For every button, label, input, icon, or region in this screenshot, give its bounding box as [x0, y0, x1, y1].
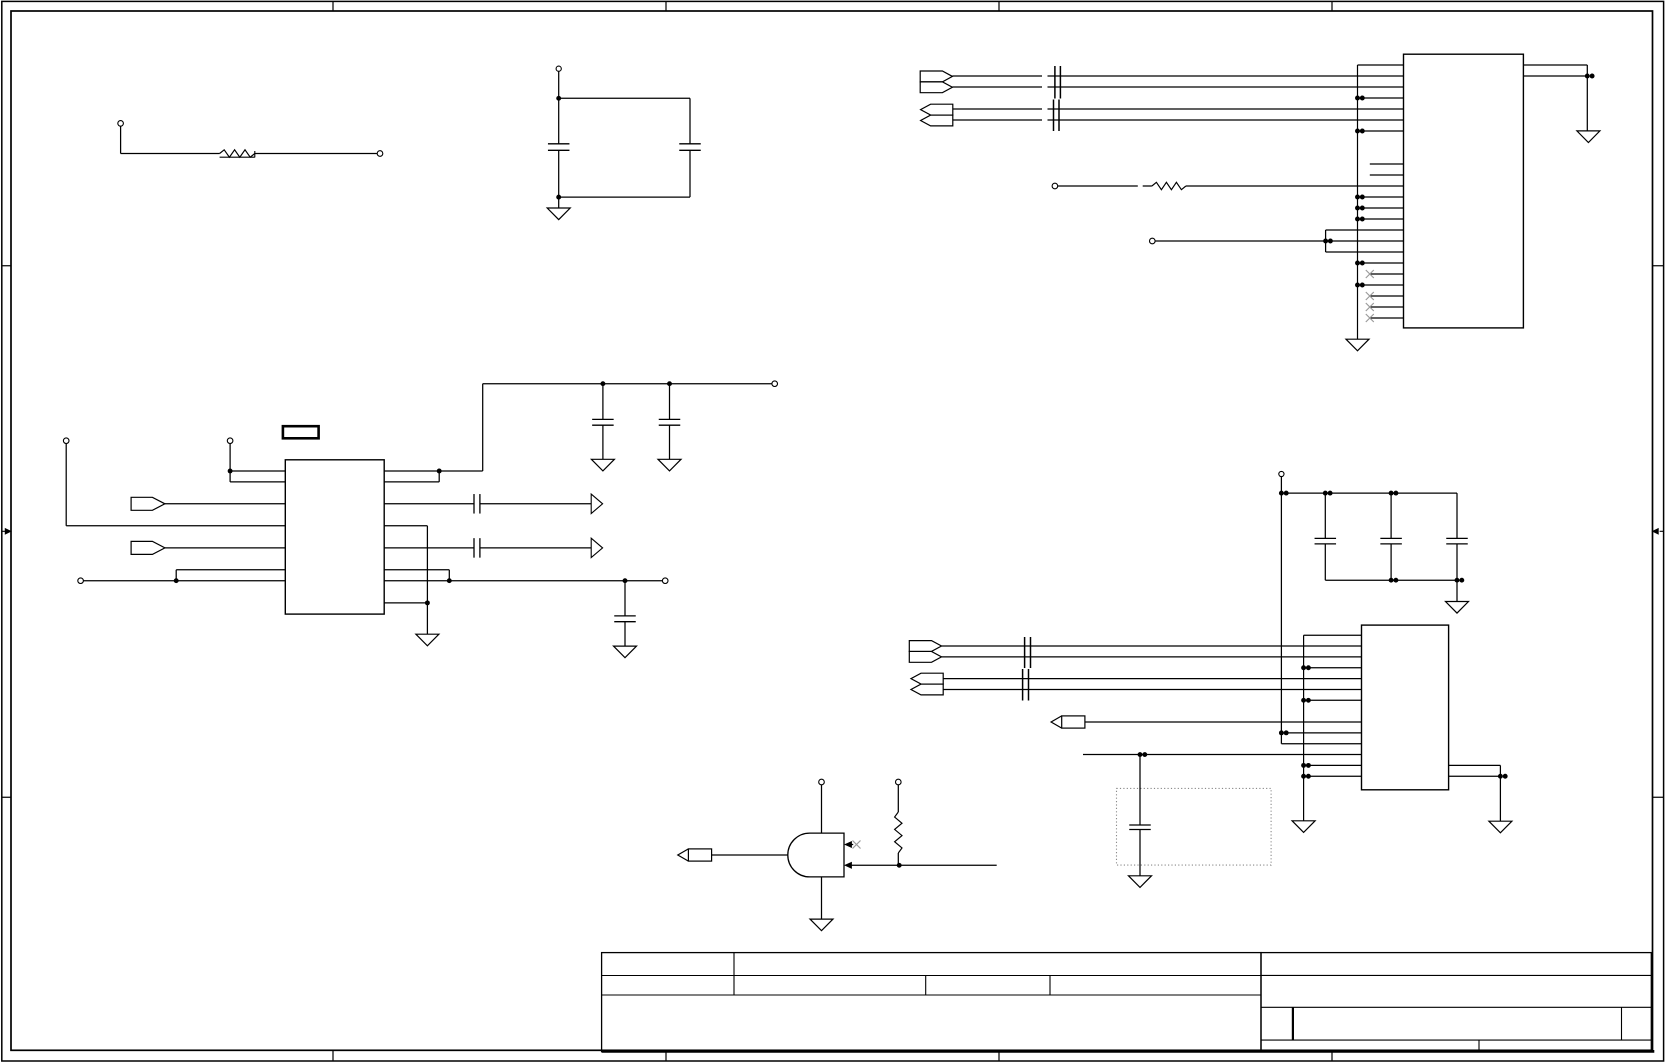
junction U5 right [1498, 774, 1508, 779]
wire U2 right rowD [384, 526, 427, 634]
capacitor C11 [1129, 755, 1151, 876]
pin stub U1 row9 [1370, 163, 1404, 165]
junction input B [897, 863, 902, 868]
terminal P11 [819, 779, 825, 785]
junction rowG cap [623, 578, 628, 583]
terminal P8 [78, 578, 84, 584]
pin stub U1 row23 no-connect [1370, 317, 1404, 319]
wire U1 gnd pin row14 [1358, 218, 1404, 220]
border left center arrow [2, 529, 11, 535]
junction rail d2 [1455, 578, 1465, 583]
wire J4 to U2 [165, 547, 285, 549]
wire to ground [558, 197, 560, 208]
pin stub U1 row19 no-connect [1370, 273, 1404, 275]
wire U1 pin row17 [1326, 251, 1404, 253]
wire cap rail bottom [1325, 579, 1457, 581]
wire J3 to U2 [165, 503, 285, 505]
title block right section [1261, 953, 1651, 1052]
ground GND10 [1292, 821, 1315, 833]
wire bus line 5 [942, 645, 1362, 647]
wire U5 right row13 [1449, 775, 1501, 777]
wire R2 segment [1143, 185, 1152, 187]
resistor R2 [1152, 182, 1186, 189]
gate U4 (mirrored AND) [788, 833, 844, 877]
wire P13 down [1280, 477, 1282, 744]
wire U5 pin row0 [1304, 634, 1362, 636]
ground GND4 [591, 459, 614, 471]
wire right to ground U5 [1499, 776, 1501, 821]
wire bracket vertical [1325, 230, 1327, 252]
wire U1 gnd pin row12 [1358, 196, 1404, 198]
wire stub input A [851, 844, 854, 846]
node junction bottom [556, 195, 561, 200]
wire P12 to R3 [897, 785, 899, 812]
pin arrow U4 input A [845, 842, 852, 848]
junction rail corner [1279, 491, 1289, 496]
title block right row line 1 [1261, 974, 1651, 976]
net ground bus vertical U5 [1303, 635, 1305, 821]
connector J3 (chevron right) [131, 497, 165, 510]
capacitor C1 [548, 98, 570, 197]
wire U2 pin rowB [230, 481, 285, 483]
no-connect X row19 [1366, 270, 1374, 278]
resistor R3 [895, 812, 902, 853]
wire bus line 1 [952, 75, 1403, 77]
bus entry slashes upper [1055, 66, 1061, 99]
wire R1 to P2 [255, 153, 377, 155]
capacitor C3 [592, 384, 614, 460]
wire bus line 8 [943, 688, 1361, 690]
wire U1 right pin row1 [1523, 75, 1587, 77]
junction left bottom [174, 578, 179, 583]
wire P3 down [558, 71, 560, 98]
pin stub U1 row10 [1370, 174, 1404, 176]
wire U1 gnd pin row13 [1358, 207, 1404, 209]
wire bus line 3 [953, 108, 1404, 110]
terminal P6 [63, 438, 69, 444]
border right center arrow [1653, 529, 1664, 535]
terminal P9 [772, 381, 778, 387]
pin stub U1 row22 no-connect [1370, 306, 1404, 308]
junction rowH [425, 600, 430, 605]
wire P8 to U2 [83, 580, 285, 582]
wire J5 to U4 [712, 854, 788, 856]
terminal P4 [1052, 183, 1058, 189]
ground GND2 [1346, 339, 1369, 351]
buffer U3A [591, 494, 602, 513]
wire P1 to R1 [121, 126, 220, 153]
bus entry slashes lower [1054, 100, 1060, 132]
wire bus line 4 [953, 119, 1404, 121]
resistor R1 [220, 150, 255, 158]
wire U2 right rowG [384, 580, 662, 582]
wire U1 gnd pin row3 [1358, 97, 1404, 99]
bus connector J6 (double chevron right) [909, 641, 941, 663]
wire R2 to U1 [1186, 185, 1404, 187]
title block left divider b [925, 976, 927, 996]
no-connect X row23 [1366, 314, 1374, 322]
terminal P7 [227, 438, 233, 444]
ic U1 body [1404, 54, 1524, 328]
wire right to ground [1586, 76, 1588, 131]
terminal P12 [896, 779, 902, 785]
junction U5 row3 [1301, 665, 1311, 670]
title block left row line 2 [602, 994, 1261, 996]
pin arrow U4 input B [845, 862, 852, 868]
terminal P2 [377, 151, 383, 157]
node junction top [556, 96, 561, 101]
connector J5 (chevron left) [678, 849, 712, 861]
junction U5 row9 [1279, 730, 1289, 735]
junction U5 row13 [1301, 774, 1311, 779]
junction U5 row6 [1301, 698, 1311, 703]
wire P7 down [229, 444, 231, 482]
wire P4 to R2 [1058, 185, 1138, 187]
wire top rail U2 [483, 383, 772, 385]
wire bus line 7 [943, 678, 1361, 680]
junction U1 row12 [1355, 195, 1365, 200]
wire rowF jog [176, 570, 285, 581]
wire U5 gnd pin row6 [1304, 699, 1362, 701]
connector J4 (chevron right) [131, 541, 165, 554]
junction U1 row14 [1355, 217, 1365, 222]
wire U2 right rowF [384, 570, 449, 581]
junction P7 [228, 469, 233, 474]
wire to ground cap bank [1456, 580, 1458, 601]
no-connect X row21 [1366, 292, 1374, 300]
wire J8 to U5 [1085, 721, 1362, 723]
ground GND3 [1577, 131, 1600, 143]
junction U1 row3 [1355, 96, 1365, 101]
terminal P5 [1150, 238, 1156, 244]
connector J8 (chevron left) [1051, 716, 1085, 728]
title block right divider c [1478, 1040, 1480, 1051]
junction rail c1 [1323, 491, 1333, 496]
wire top rail [559, 97, 690, 99]
junction rail a [600, 381, 605, 386]
component DNP thick rectangle [283, 426, 319, 438]
wire U5 gnd pin row12 [1304, 764, 1362, 766]
title block right row line 3 [1261, 1039, 1651, 1041]
junction U1 row13 [1355, 206, 1365, 211]
wire U1 gnd pin row20 [1358, 284, 1404, 286]
bus connector J2 (double chevron left) [921, 104, 953, 126]
no-connect X input A [853, 841, 861, 849]
wire U2 pin rowA [230, 470, 285, 472]
ground GND8 [810, 919, 833, 931]
ground GND12 [1489, 821, 1512, 833]
ground GND7 [614, 646, 637, 658]
title block left divider a [733, 953, 735, 995]
ground GND11 [1129, 876, 1152, 888]
title block right divider b [1621, 1007, 1623, 1040]
wire U1 pin row16 [1326, 240, 1404, 242]
terminal P10 [662, 578, 668, 584]
buffer U3B [591, 538, 602, 557]
ground GND6 [416, 634, 439, 646]
bus entry slashes upper U5 [1025, 637, 1031, 668]
pin stub U1 row21 no-connect [1370, 295, 1404, 297]
capacitor C7 [614, 581, 636, 646]
terminal P3 [556, 66, 561, 71]
wire bus line 6 [942, 656, 1362, 658]
title block left row line 1 [602, 975, 1261, 977]
capacitor C6 series [384, 538, 591, 558]
wire U1 pin row0 [1358, 64, 1404, 66]
wire U5 pin row11 [1083, 754, 1362, 756]
wire U1 gnd pin row6 [1358, 130, 1404, 132]
wire U4 to ground [821, 877, 823, 919]
wire bottom rail [559, 196, 690, 198]
dotted box (optional group) [1117, 788, 1272, 865]
title block left section [602, 953, 1261, 1052]
wire U1 pin row15 [1326, 229, 1404, 231]
junction rail b [667, 381, 672, 386]
junction U1 right [1585, 74, 1595, 79]
wire rowB jog [384, 471, 439, 482]
title block bottom thick edge [602, 1050, 1655, 1053]
junction U1 row18 [1355, 261, 1365, 266]
capacitor C5 series [384, 494, 591, 514]
bus connector J7 (double chevron left) [911, 673, 943, 695]
bus connector J1 (double chevron right) [920, 71, 952, 93]
no-connect X row22 [1366, 303, 1374, 311]
wire U1 right pin row0 [1523, 65, 1587, 76]
capacitor C10 [1446, 493, 1468, 580]
wire cap rail top [1281, 492, 1457, 494]
wire P11 to U4 [821, 785, 823, 833]
capacitor C9 [1380, 493, 1402, 580]
junction row11 cap [1138, 752, 1148, 757]
wire U5 right row12 [1449, 765, 1501, 776]
wire U2 right rowH [384, 602, 427, 604]
ground GND9 [1446, 602, 1469, 614]
junction rowF-G [447, 578, 452, 583]
junction bracket [1323, 239, 1333, 244]
wire input B [852, 864, 997, 866]
capacitor C8 [1315, 493, 1337, 580]
junction U5 row12 [1301, 763, 1311, 768]
bus entry slashes lower U5 [1023, 669, 1029, 701]
wire bus line 2 [952, 86, 1403, 88]
terminal P13 [1279, 471, 1284, 476]
capacitor C4 [659, 384, 681, 460]
wire P6 to U2 [66, 444, 285, 526]
wire R3 to input B [897, 853, 899, 865]
junction rowA [437, 469, 442, 474]
junction rail c2 [1389, 491, 1399, 496]
title block left divider c [1049, 976, 1051, 996]
wire U5 gnd pin row13 [1304, 775, 1362, 777]
capacitor C2 [679, 98, 701, 197]
wire P5 to bracket [1155, 240, 1326, 242]
net ground bus vertical U1 [1357, 65, 1359, 339]
ground GND1 [547, 208, 570, 220]
wire U5 pin row10 [1281, 743, 1361, 745]
ic U2 body [285, 460, 384, 614]
junction rail d1 [1389, 578, 1399, 583]
ic U5 body [1362, 625, 1449, 790]
wire rail up [482, 384, 484, 471]
junction U1 row20 [1355, 283, 1365, 288]
wire U2 right rowA [384, 470, 483, 472]
title block right row line 2 [1261, 1006, 1651, 1008]
wire U5 pin row9 [1281, 732, 1361, 734]
junction U1 row6 [1355, 129, 1365, 134]
title block right divider thick [1292, 1007, 1294, 1040]
terminal P1 [118, 121, 124, 127]
wire U5 gnd pin row3 [1304, 667, 1362, 669]
ground GND5 [658, 459, 681, 471]
wire U1 gnd pin row18 [1358, 262, 1404, 264]
